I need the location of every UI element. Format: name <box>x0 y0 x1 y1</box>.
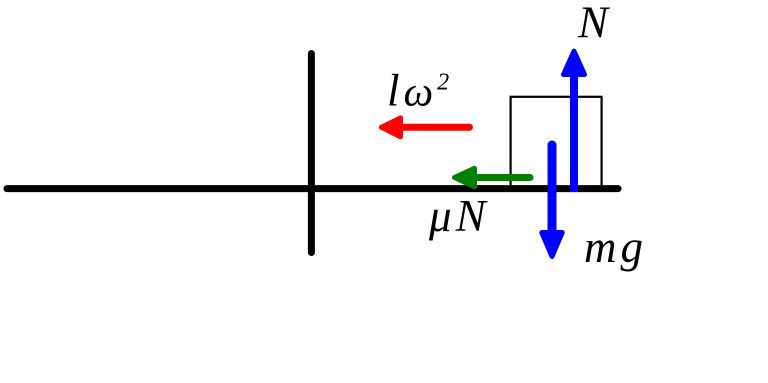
wire vertical axis line <box>308 54 315 253</box>
svg-text:mg: mg <box>584 222 643 272</box>
svg-text:μN: μN <box>428 191 489 241</box>
node block (box on surface) <box>511 97 602 188</box>
node green arrow head <box>455 168 475 186</box>
wire blue up arrow shaft (N force) <box>570 75 578 192</box>
node red arrow head <box>381 118 400 137</box>
wire green arrow shaft (mu N) <box>475 174 530 181</box>
svg-text:N: N <box>577 0 611 48</box>
node blue up arrow head <box>564 51 585 74</box>
wire blue down arrow shaft (mg force) <box>548 145 557 232</box>
node blue down arrow head <box>542 233 562 257</box>
wire ground line (horizontal axis) <box>7 185 618 192</box>
wire red arrow shaft (l omega^2) <box>400 124 470 131</box>
svg-text:lω2: lω2 <box>387 66 449 116</box>
